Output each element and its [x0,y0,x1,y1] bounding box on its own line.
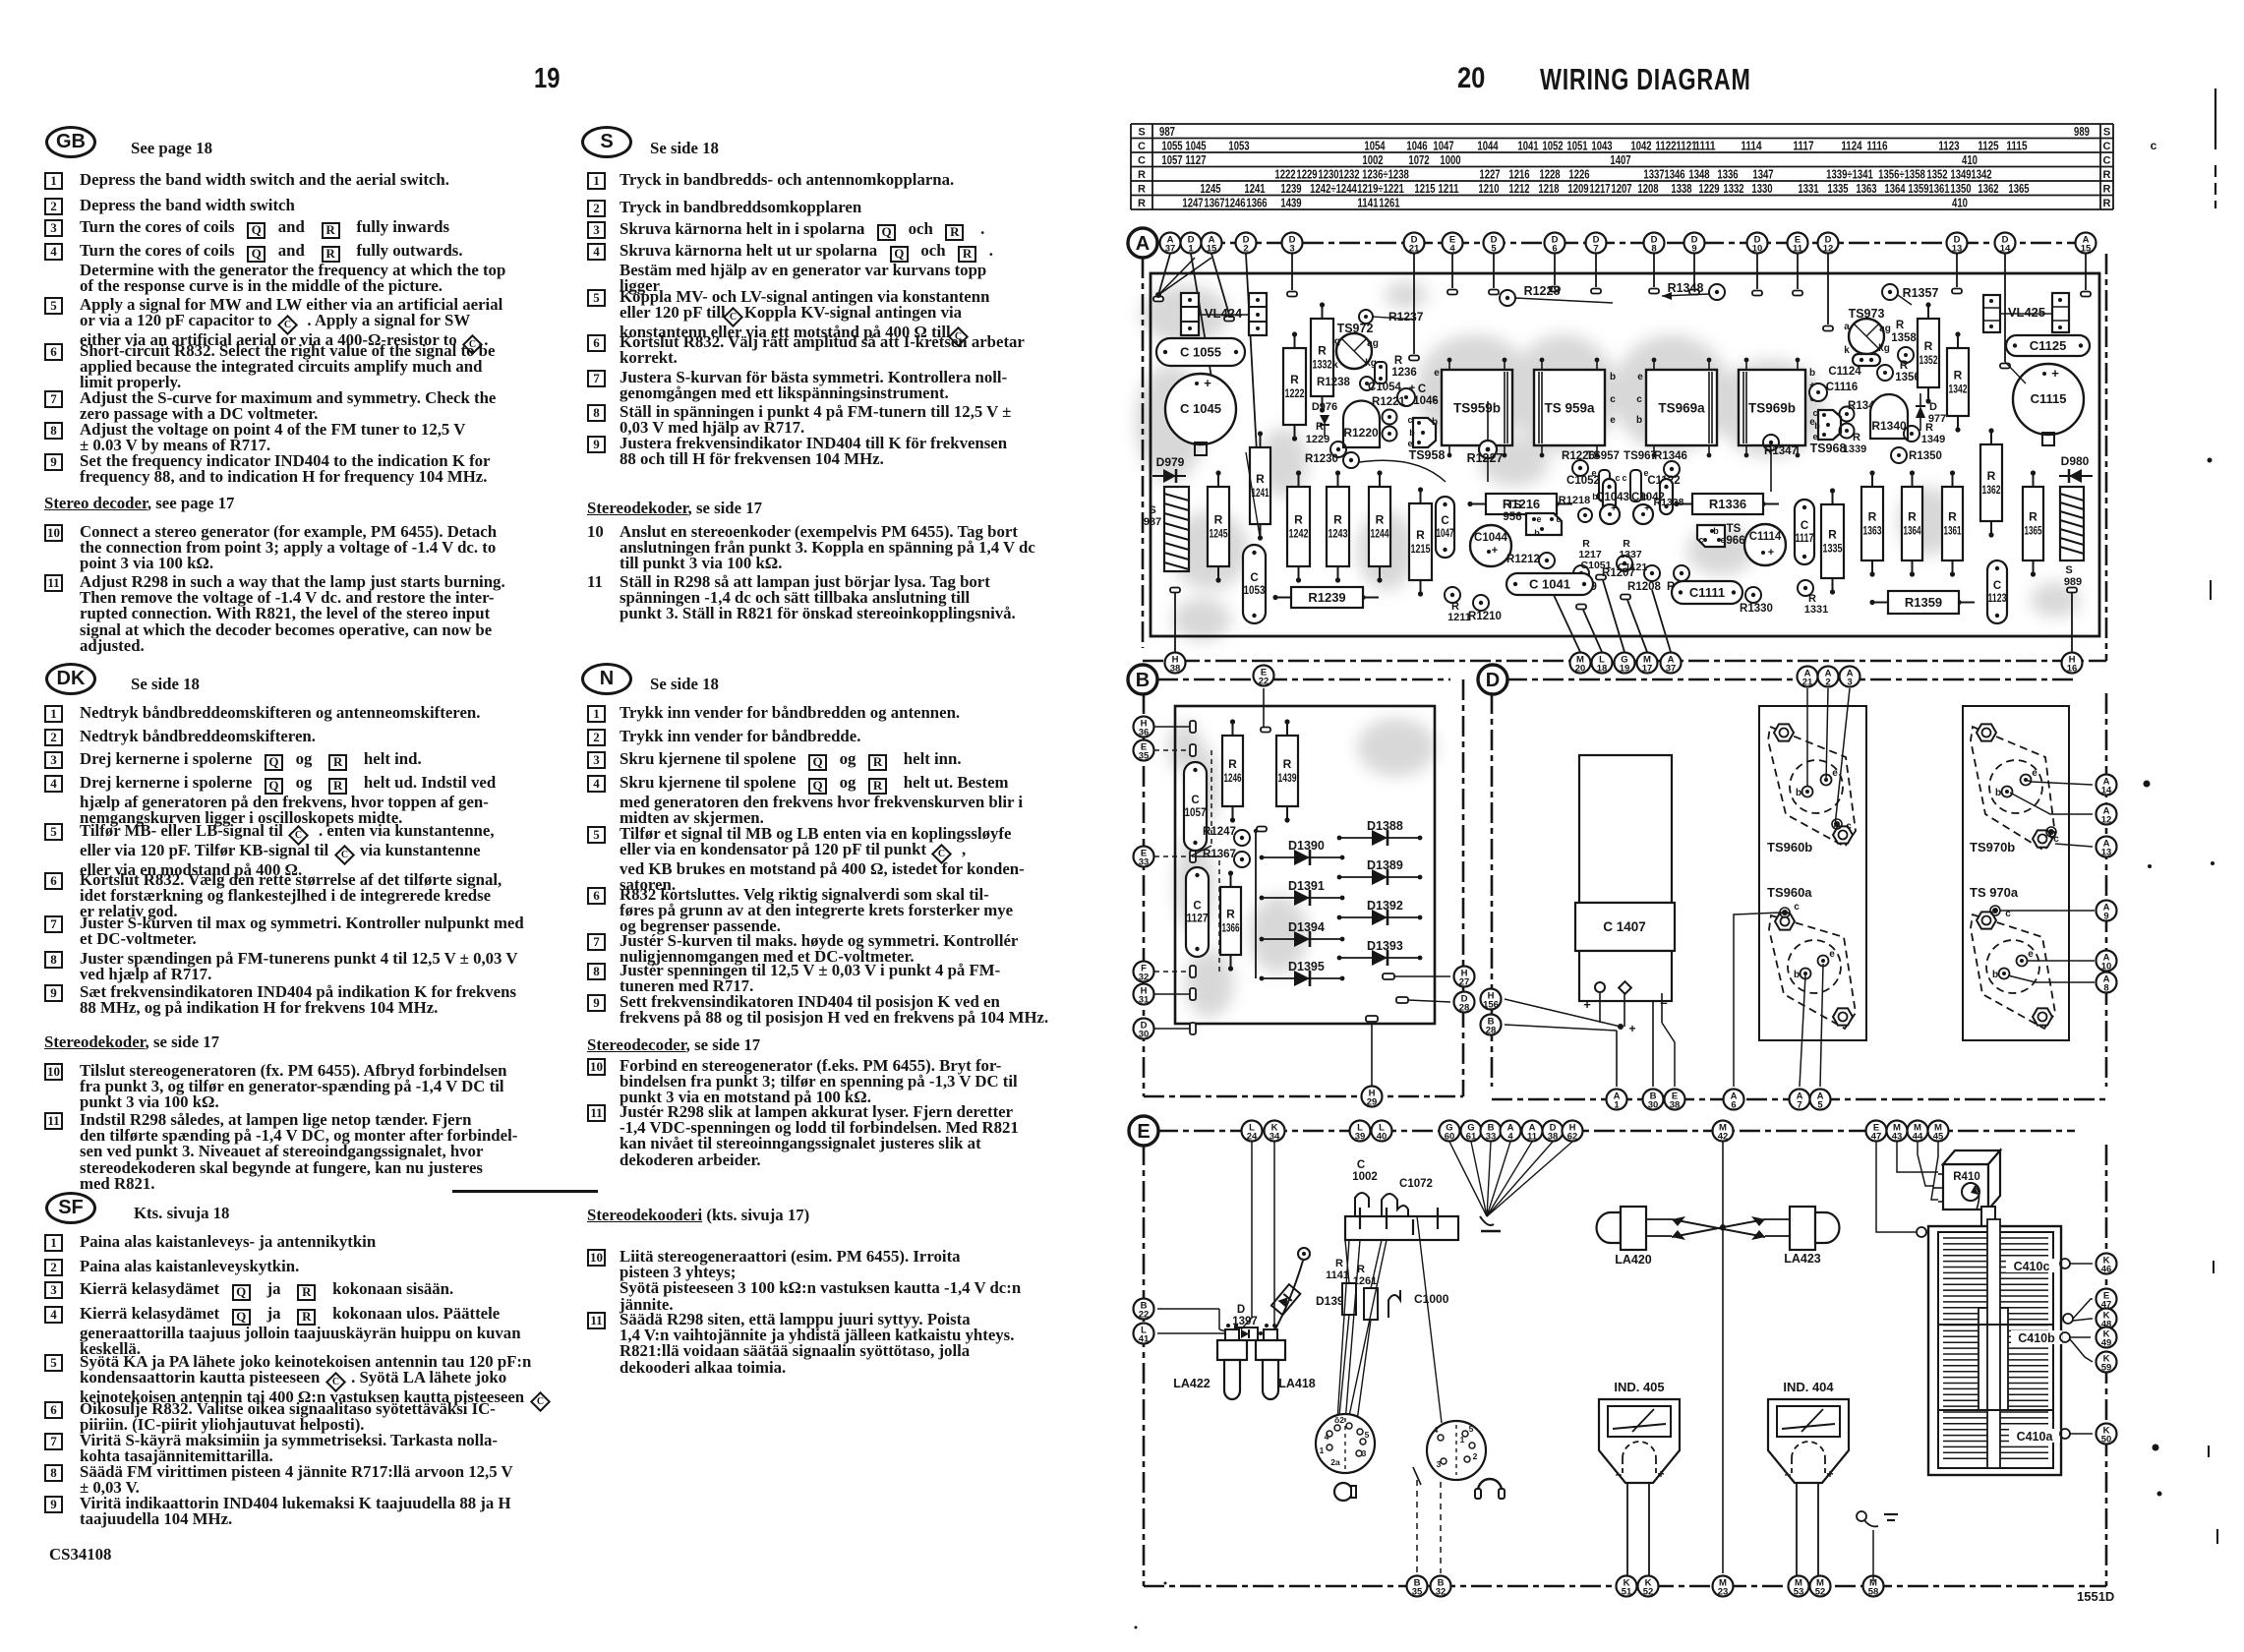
switch S989 [2060,487,2084,588]
svg-text:R1338: R1338 [1654,497,1684,508]
svg-text:R1239: R1239 [1308,590,1345,605]
svg-text:410: 410 [1952,197,1968,210]
svg-text:D1395: D1395 [1288,960,1325,973]
svg-text:9: 9 [1691,244,1696,255]
resistor R1347 [1763,435,1798,492]
terminal A5 [1810,1090,1831,1111]
svg-text:4: 4 [1449,244,1455,255]
capacitor C1115 [2013,364,2084,445]
svg-text:2: 2 [1825,678,1830,688]
scan artifacts [1135,88,2218,1629]
terminal A37 [1160,233,1181,255]
svg-text:1210: 1210 [1478,182,1499,196]
svg-text:b: b [1636,415,1642,426]
svg-text:1335: 1335 [1827,182,1848,196]
svg-text:C: C [2103,154,2111,166]
svg-text:11: 11 [1527,1132,1538,1143]
svg-text:1364: 1364 [1904,524,1921,538]
svg-text:1057: 1057 [1161,153,1182,167]
terminal B35 [1407,1576,1428,1598]
svg-text:1339: 1339 [1843,443,1866,455]
svg-text:TS973: TS973 [1849,307,1885,321]
svg-text:c: c [1812,408,1817,418]
transistor TS966 [1697,523,1745,547]
svg-text:1352: 1352 [1926,168,1947,182]
capacitor C1111 [1672,581,1742,604]
svg-text:1211: 1211 [1438,182,1458,196]
svg-text:28: 28 [1486,1026,1497,1036]
svg-text:38: 38 [1548,1132,1559,1143]
svg-text:1218: 1218 [1538,182,1559,196]
wire M42 vertical [1720,1142,1725,1573]
svg-text:D980: D980 [2061,454,2090,468]
svg-text:1052: 1052 [1542,140,1563,153]
svg-text:C: C [1138,141,1146,152]
svg-text:1127: 1127 [1185,153,1206,167]
svg-text:1342: 1342 [1949,383,1968,396]
svg-text:1349: 1349 [1950,168,1971,182]
svg-text:+: + [1657,1467,1664,1481]
terminal M58 [1863,1576,1884,1598]
svg-text:R1330: R1330 [1740,603,1773,615]
transistor TS973 [1844,307,1891,356]
terminal M53 [1789,1576,1809,1598]
svg-text:989: 989 [2064,576,2082,588]
terminal H29 [1371,1025,1373,1086]
svg-text:b: b [1992,970,1998,980]
svg-text:LA423: LA423 [1784,1252,1821,1266]
terminal D7 [1586,233,1607,255]
wire B22-D1397 [1157,1309,1232,1333]
capacitor C1045 [1165,374,1236,455]
svg-text:C: C [2103,141,2111,152]
svg-text:R1218: R1218 [1559,495,1590,506]
svg-text:1359: 1359 [1908,182,1928,196]
svg-text:R: R [1333,513,1342,527]
terminal A13 [2096,837,2117,858]
svg-text:10: 10 [2101,962,2112,973]
resistor R1228 [1500,284,1613,306]
svg-text:R1207: R1207 [1602,567,1635,579]
resistor R1245 [1208,470,1229,582]
svg-text:1055: 1055 [1161,140,1182,153]
terminal A15 [2076,233,2096,255]
svg-text:b: b [1794,970,1800,980]
capacitor C1122 [1647,475,1680,514]
svg-text:1362: 1362 [1982,483,2001,497]
svg-text:1346: 1346 [1664,168,1684,182]
wire K34 down [1270,1142,1274,1337]
svg-text:R: R [1416,528,1425,542]
svg-text:C1043: C1043 [1596,492,1629,503]
capacitor C1127 [1186,867,1209,957]
diode D1393 [1337,939,1423,966]
svg-text:1002: 1002 [1362,153,1383,167]
svg-text:TS969a: TS969a [1658,401,1705,416]
terminal A15 [1202,233,1222,255]
terminal H27 [1394,975,1450,977]
diode D1389 [1337,858,1423,885]
svg-text:TS970b: TS970b [1970,840,2015,855]
svg-text:3: 3 [1289,244,1294,255]
svg-text:1117: 1117 [1796,533,1814,545]
svg-text:1219÷1221: 1219÷1221 [1357,182,1404,196]
ground symbol [1857,1511,1898,1581]
svg-text:6: 6 [1731,1100,1736,1111]
svg-text:13: 13 [1952,244,1963,255]
terminal K52 [1638,1576,1659,1598]
svg-text:61: 61 [1466,1132,1477,1143]
svg-text:S: S [2103,126,2110,138]
terminal A21 [1798,667,1818,688]
svg-text:b: b [1432,417,1438,428]
terminal E11 [1788,233,1808,255]
svg-text:5: 5 [1469,1424,1474,1434]
svg-text:15: 15 [2081,244,2092,255]
transformer TS969a [1646,358,1717,458]
resistor R1238 [1317,377,1374,390]
svg-text:1227: 1227 [1479,168,1500,182]
svg-text:31: 31 [1139,995,1150,1006]
svg-text:1208: 1208 [1637,182,1658,196]
svg-text:D1394: D1394 [1288,920,1325,934]
svg-text:c: c [1556,514,1561,524]
svg-text:–: – [1785,1467,1792,1481]
svg-text:e: e [1434,368,1440,379]
capacitor C1042 [1631,492,1665,524]
svg-text:kg: kg [1878,343,1890,354]
lamp LA418 [1256,1324,1316,1399]
terminal D5 [1484,233,1505,255]
resistor R1330 [1740,587,1773,615]
svg-text:1332: 1332 [1313,358,1332,372]
svg-text:1245: 1245 [1210,527,1228,541]
svg-text:1367: 1367 [1204,197,1224,210]
svg-text:R1350: R1350 [1909,450,1942,462]
resistor R1362 [1980,428,2002,537]
resistor R1346 [1654,450,1687,477]
svg-text:D979: D979 [1156,455,1185,469]
svg-text:TS968: TS968 [1810,442,1847,455]
terminal A6 [1724,1090,1744,1111]
transistor TS960a [1767,885,1856,1029]
svg-text:b: b [1610,372,1616,383]
svg-text:+: + [1409,383,1415,394]
section label D [1478,665,1507,694]
terminal B22 [1134,1299,1154,1321]
svg-text:R: R [1138,198,1146,209]
terminal A7 [1790,1090,1810,1111]
svg-text:28: 28 [1459,1003,1470,1014]
capacitor C1000 [1388,1290,1449,1318]
svg-text:1349: 1349 [1921,434,1945,445]
svg-text:1348: 1348 [1688,168,1709,182]
terminal leads (top) [1153,254,2091,459]
resistor R1222 [1283,331,1306,441]
svg-text:c: c [1846,821,1852,832]
resistor R1220 [1343,401,1380,448]
svg-text:6: 6 [1552,244,1557,255]
svg-text:TS: TS [1727,523,1742,535]
svg-text:18: 18 [1597,664,1608,675]
svg-text:–: – [1616,1467,1623,1481]
terminal M42 [1713,1121,1734,1143]
resistor R1226 [1562,450,1595,476]
svg-text:3: 3 [1847,678,1852,688]
svg-text:R: R [1954,369,1963,383]
svg-text:46: 46 [2101,1265,2112,1275]
svg-text:R: R [1214,513,1223,527]
svg-text:14: 14 [2101,786,2112,796]
svg-text:14: 14 [2000,244,2011,255]
svg-text:1: 1 [1320,1445,1325,1455]
wire D14 lead [2005,362,2026,383]
svg-text:C1115: C1115 [2031,391,2067,406]
resistor R1358 [1891,320,1917,363]
resistor R1356 [1877,360,1920,383]
svg-text:1122: 1122 [1655,140,1676,153]
svg-text:1241: 1241 [1244,182,1265,196]
resistor R1439 [1276,719,1298,822]
svg-text:R: R [1318,344,1327,358]
capacitor C1044 [1470,525,1511,566]
transistor TS970a [1970,885,2055,1029]
resistor R1359 [1869,591,1975,614]
svg-text:C1124: C1124 [1828,366,1861,378]
meter IND404 [1768,1380,1849,1583]
rotary switch S1 [1316,1414,1375,1473]
svg-text:1361: 1361 [1944,524,1962,538]
resistor R1352 [1918,302,1939,403]
svg-text:1115: 1115 [2006,140,2027,153]
svg-text:7: 7 [1593,244,1598,255]
svg-text:R1208: R1208 [1627,581,1661,593]
svg-text:3: 3 [1437,1459,1442,1469]
svg-text:1242: 1242 [1289,527,1309,541]
transistor TS956 [1503,500,1562,538]
svg-text:35: 35 [1412,1587,1423,1598]
transistor TS967 [1622,450,1656,501]
fan wires G60-H62 [1449,1142,1572,1231]
svg-text:R: R [1948,510,1957,524]
svg-text:51: 51 [1622,1587,1632,1598]
terminal H16 [2062,653,2083,675]
capacitor C1123 [1987,560,2007,623]
svg-text:e: e [1610,415,1616,426]
svg-text:LA420: LA420 [1615,1253,1652,1267]
svg-text:ag: ag [1879,324,1891,334]
terminal G60 [1440,1121,1460,1143]
svg-text:C1054: C1054 [1368,382,1401,393]
terminal K50 [2096,1424,2117,1445]
svg-text:49: 49 [2101,1338,2112,1349]
svg-text:1232: 1232 [1338,168,1359,182]
svg-text:1002: 1002 [1352,1171,1378,1183]
terminal H62 [1563,1121,1583,1143]
resistor R1217 [1578,538,1602,560]
svg-text:R: R [1138,169,1146,181]
svg-text:b: b [1995,788,2001,798]
svg-text:e: e [1407,439,1412,448]
svg-text:2: 2 [1243,244,1248,255]
svg-text:989: 989 [2074,125,2090,139]
svg-text:R1228: R1228 [1524,284,1561,298]
svg-text:1361: 1361 [1928,182,1949,196]
svg-text:34: 34 [1270,1132,1280,1143]
diode D1391 [1260,879,1345,906]
svg-text:+: + [1628,1022,1635,1035]
svg-text:1042: 1042 [1630,140,1651,153]
svg-text:b: b [1534,528,1540,538]
svg-text:62: 62 [1567,1132,1578,1143]
svg-text:C: C [1191,795,1199,806]
diode D1392 [1337,899,1423,925]
resistor R1239 [1272,587,1379,608]
svg-text:R1357: R1357 [1903,286,1939,300]
svg-text:1336: 1336 [1717,168,1738,182]
terminal leads (bottom) [1170,575,2077,653]
svg-text:1363: 1363 [1856,182,1876,196]
svg-text:12: 12 [1823,244,1834,255]
lamp LA422 [1173,1324,1247,1399]
transformer TS959b [1442,358,1512,458]
section D frame [1492,679,2106,1099]
wires E35/E33 dashed verticals [1190,750,1219,972]
terminal D14 [1995,233,2016,255]
svg-text:c: c [1610,394,1616,405]
wires tuner to switches [1337,1216,1442,1423]
resistor R1209 [1564,565,1597,593]
transistor TS958 [1407,415,1445,462]
svg-text:58: 58 [1868,1587,1879,1598]
svg-text:C: C [1418,383,1426,395]
svg-text:27: 27 [1459,977,1470,988]
svg-text:TS967: TS967 [1624,450,1657,462]
svg-text:IND. 404: IND. 404 [1783,1380,1834,1394]
svg-text:D1392: D1392 [1367,899,1403,913]
svg-text:1246: 1246 [1224,197,1245,210]
resistor R1236 [1375,355,1417,383]
wires E47/M43/M44/M45 [1876,1142,1938,1237]
svg-text:1338: 1338 [1671,182,1691,196]
terminal D9 [1684,233,1705,255]
svg-text:C 1407: C 1407 [1603,919,1646,934]
svg-text:R: R [1394,355,1403,367]
svg-text:1244: 1244 [1371,527,1389,541]
terminal M43 [1887,1121,1908,1143]
resistor R1342 [1947,331,1969,432]
svg-text:b: b [1809,368,1815,379]
svg-text:4: 4 [1507,1132,1513,1143]
svg-text:2a: 2a [1330,1457,1340,1467]
svg-text:52: 52 [1643,1587,1654,1598]
resistor R1261 [1353,1264,1378,1320]
svg-text:1123: 1123 [1938,140,1959,153]
svg-text:1331: 1331 [1804,604,1828,616]
terminal B28 [1481,1015,1502,1036]
resistor R1331 [1798,580,1828,616]
diode D977 [1916,393,1946,431]
svg-text:D1393: D1393 [1367,939,1403,953]
terminal B30 [1643,1090,1664,1111]
svg-text:e: e [1637,372,1643,383]
resistor R1247 [1203,826,1250,846]
svg-text:R: R [1896,320,1905,331]
svg-text:R1210: R1210 [1468,611,1502,622]
svg-text:8: 8 [2103,983,2108,994]
svg-text:b: b [1814,421,1820,431]
svg-text:D1388: D1388 [1367,819,1403,833]
terminal K51 [1617,1576,1637,1598]
wires to TS970 [2000,780,2095,982]
svg-text:R1212: R1212 [1506,554,1540,565]
svg-text:1116: 1116 [1866,140,1887,153]
svg-text:b: b [1796,788,1801,798]
svg-text:1141: 1141 [1357,197,1378,210]
svg-text:D: D [1929,401,1937,413]
dashed wires to B35/B32 [1413,1467,1441,1573]
capacitor C1117 [1795,500,1814,564]
transformer TS959a [1534,358,1605,458]
svg-text:17: 17 [1642,664,1653,675]
svg-text:1053: 1053 [1244,585,1266,597]
section label A [1128,228,1157,258]
svg-text:1228: 1228 [1539,168,1560,182]
capacitor C1114 [1744,524,1786,565]
svg-text:C 1045: C 1045 [1180,401,1221,416]
svg-text:D1389: D1389 [1367,858,1403,872]
terminal L24 [1242,1121,1263,1143]
svg-text:1053: 1053 [1228,140,1249,153]
resistor R1216 [1467,494,1572,514]
svg-text:C1114: C1114 [1749,531,1782,543]
section label E [1129,1116,1158,1146]
terminal D2 [1236,233,1257,255]
meter IND405 [1599,1380,1680,1583]
svg-text:R: R [1256,472,1265,486]
resistor R1340 [1870,394,1908,439]
svg-text:1335: 1335 [1823,542,1843,556]
svg-text:1124: 1124 [1841,140,1861,153]
resistor R1207 [1602,556,1635,579]
terminal K48 [2096,1309,2117,1330]
svg-text:R: R [1228,757,1237,771]
svg-text:20: 20 [1575,664,1586,675]
svg-text:1217: 1217 [1589,182,1610,196]
svg-text:c: c [2151,139,2157,152]
terminal M52 [1810,1576,1831,1598]
resistor R1361 [1942,470,1963,576]
transistor TS968 [1810,408,1847,455]
svg-text:987: 987 [1144,516,1161,528]
svg-text:1141: 1141 [1326,1269,1349,1281]
svg-text:c: c [1622,473,1626,483]
svg-text:1236÷1238: 1236÷1238 [1362,168,1409,182]
svg-text:b: b [1713,526,1719,536]
resistor R1341 [1840,400,1882,439]
capacitor C1072 [1382,1178,1433,1216]
svg-text:C: C [1250,572,1258,584]
section label B [1128,665,1157,694]
svg-text:22: 22 [1259,677,1270,687]
heatsink plate TS960 [1759,706,1866,1040]
svg-text:R: R [1290,373,1299,386]
svg-text:R1348: R1348 [1668,281,1704,295]
svg-text:c: c [1432,393,1438,404]
svg-text:8: 8 [1651,244,1656,255]
svg-text:VL424: VL424 [1205,306,1243,321]
terminal A9 [2096,901,2117,922]
